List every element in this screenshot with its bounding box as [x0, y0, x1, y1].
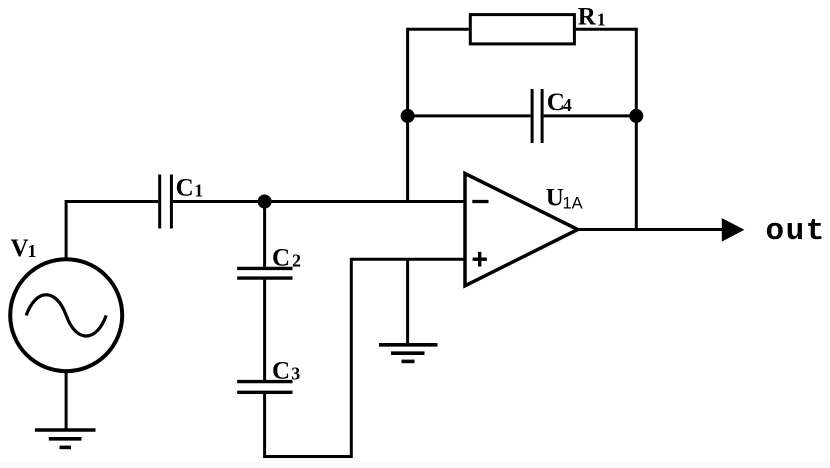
wire C4 right — [544, 114, 637, 117]
svg-text:4: 4 — [563, 95, 572, 115]
wire V1 to C1 — [66, 202, 158, 259]
output arrow head — [722, 218, 745, 242]
svg-text:U: U — [546, 185, 564, 212]
wire C1 to op-amp minus input — [173, 200, 465, 203]
wire left feedback vertical — [406, 28, 409, 202]
capacitor C1 — [160, 175, 172, 229]
svg-text:1: 1 — [194, 180, 203, 200]
ground below V1 — [35, 428, 96, 432]
op-amp minus sign — [472, 200, 488, 203]
svg-text:C: C — [176, 174, 194, 201]
wire C4 left — [408, 114, 531, 117]
wire ground tap vertical — [406, 259, 409, 345]
svg-text:1: 1 — [28, 241, 37, 261]
wire V1 bottom vertical — [65, 371, 68, 430]
label V1 — [11, 4, 826, 385]
svg-text:3: 3 — [291, 363, 300, 383]
wire C3 bottom loop to plus input — [265, 259, 465, 456]
svg-text:2: 2 — [292, 251, 301, 271]
wire R1 right to right vertical — [576, 28, 636, 31]
node junction dot left — [402, 110, 413, 121]
svg-text:1A: 1A — [563, 195, 583, 213]
node junction dot right — [631, 110, 642, 121]
capacitor C2 — [237, 268, 292, 278]
node junction dot input — [259, 196, 270, 207]
ground below plus input — [379, 343, 438, 347]
V1 sine wave — [26, 295, 106, 336]
svg-text:C: C — [272, 357, 290, 384]
wire op-amp output — [578, 228, 723, 231]
resistor R1 — [470, 15, 574, 44]
source V1 — [10, 259, 122, 371]
svg-text:out: out — [766, 214, 826, 249]
svg-text:V: V — [11, 235, 29, 262]
wire C2 branch vertical upper — [263, 202, 266, 267]
svg-text:1: 1 — [597, 10, 606, 30]
op-amp plus sign — [473, 252, 487, 267]
capacitor C4 — [532, 89, 542, 143]
wire right feedback vertical — [635, 28, 638, 230]
wire between C2 and C3 — [263, 280, 266, 380]
op-amp U1 triangle — [465, 174, 578, 286]
svg-text:R: R — [578, 4, 597, 31]
capacitor C3 — [237, 382, 292, 393]
wire top feedback from node to R1 left — [408, 28, 469, 31]
bottom window strip — [0, 462, 830, 468]
svg-text:C: C — [272, 245, 290, 272]
